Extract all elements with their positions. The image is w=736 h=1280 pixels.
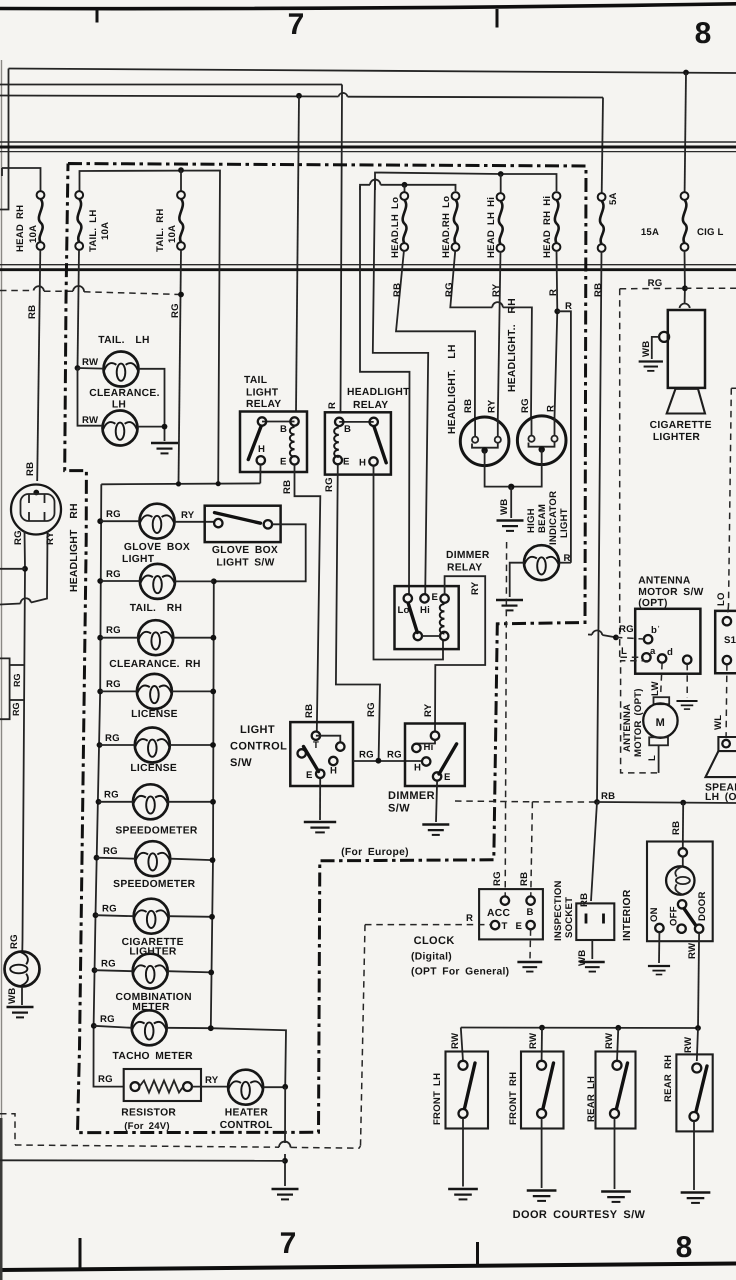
- door courtesy feed line: [461, 1027, 698, 1030]
- ground: indicator: [496, 600, 523, 610]
- node: dot on RG wire branch to page edge: [22, 566, 28, 572]
- dashed option box: top edge to CIG node: [620, 287, 685, 290]
- svg-text:RB: RB: [593, 283, 604, 297]
- node: dot tacho row right: [208, 1025, 214, 1031]
- tail relay switch arm: [248, 427, 261, 460]
- svg-text:7: 7: [288, 8, 305, 41]
- svg-text:R: R: [466, 913, 473, 924]
- wire: feed to fuse HEAD RH from page edge: [2, 168, 41, 191]
- svg-text:DOOR: DOOR: [697, 891, 708, 921]
- svg-text:OFF: OFF: [669, 906, 680, 926]
- inspection socket slots: [586, 914, 604, 924]
- front rh switch arm: [543, 1063, 554, 1109]
- bus band 1 (three stacked lines): [0, 141, 736, 143]
- wire: fuse TAIL LH output down to tail lamps: [78, 250, 80, 368]
- svg-text:RB: RB: [25, 462, 36, 476]
- fuse HEAD RH 10A: [37, 191, 45, 250]
- wire RB: HEAD LH Lo output to headlight LH low pin: [396, 250, 475, 419]
- svg-text:RG: RG: [98, 1074, 113, 1085]
- lamp: unnamed bottom-left lamp: [5, 952, 40, 987]
- wire: Hi rail riser down to dimmer relay Hi: [373, 178, 428, 595]
- svg-text:RY: RY: [181, 510, 195, 521]
- RB feed line lower right: [455, 800, 532, 803]
- svg-text:RB: RB: [601, 791, 615, 802]
- headlight RH lamp circle: [517, 416, 566, 465]
- lamp column right rail: [211, 581, 286, 1086]
- wire: lighter WB pin to ground: [652, 337, 659, 359]
- svg-text:INDICATOR: INDICATOR: [548, 491, 559, 545]
- svg-text:(For 24V): (For 24V): [124, 1121, 170, 1132]
- relay: TAIL LIGHT RELAY box: [240, 412, 307, 473]
- svg-text:LH: LH: [112, 400, 126, 411]
- wire: HEAD LH Hi fuse top: [500, 174, 502, 193]
- node: dot courtesy line at REAR RH: [695, 1025, 701, 1031]
- node: dot speedo1 row right: [210, 799, 216, 805]
- svg-text:R: R: [546, 405, 557, 412]
- wire: interior ON to ground: [658, 932, 660, 963]
- wire: dimmer switch E to ground: [436, 781, 437, 822]
- wire stub from edge box to RG wire (lower): [10, 699, 24, 701]
- ground: dimmer switch: [422, 825, 449, 835]
- light control upper right contact: [336, 742, 344, 750]
- front lh bottom pin: [459, 1109, 468, 1118]
- wire: line A left entry stub from page edge: [0, 69, 9, 210]
- dashed wire: ground-side pin to ground: [686, 664, 688, 698]
- svg-text:RG: RG: [101, 959, 116, 970]
- speaker cone: [706, 751, 736, 777]
- svg-text:RB: RB: [579, 893, 590, 907]
- svg-text:RB: RB: [519, 872, 530, 886]
- dashed wire: R feed to clock T: [365, 924, 491, 926]
- lamp LICENSE 2: [135, 728, 170, 763]
- wire: fuse HEAD RH output down to connector: [37, 250, 40, 481]
- clock pin ACC: [501, 896, 509, 904]
- relay: DIMMER RELAY box: [395, 586, 459, 649]
- dimmer relay bottom-right pin: [440, 632, 448, 640]
- glove switch arm: [215, 513, 261, 524]
- wire: line B corner down to headlight relay B: [341, 85, 343, 413]
- svg-text:T: T: [502, 921, 508, 932]
- wire: CLEARANCE LH right to ground: [138, 427, 165, 441]
- wire: glove lamp to switch: [175, 521, 215, 523]
- node: dot courtesy line at FRONT RH: [539, 1025, 545, 1031]
- svg-text:CONTROL: CONTROL: [220, 1120, 273, 1131]
- svg-text:RELAY: RELAY: [246, 399, 281, 410]
- wire: TAIL LH lamp right to ground riser: [139, 369, 165, 427]
- ground: bottom-left lamp: [7, 1007, 34, 1017]
- cigarette lighter connector bump: [680, 304, 690, 308]
- node: dot heater row right: [282, 1084, 288, 1090]
- wire: fuse TAIL RH output down to panel feed line: [179, 250, 182, 484]
- headlight relay pin H: [369, 457, 377, 465]
- wire: line C corner down to 5A fuse: [602, 98, 603, 194]
- wire: courtesy line down to FRONT LH: [461, 1028, 463, 1062]
- svg-text:RB: RB: [463, 399, 474, 413]
- interior pin DOOR: [695, 925, 703, 933]
- svg-text:FRONT RH: FRONT RH: [508, 1072, 519, 1125]
- wire: tail fuse top rail: [80, 171, 221, 484]
- bottom tick mark left: [79, 1238, 82, 1268]
- left page scan edge: [1, 60, 3, 1280]
- svg-text:LH (O: LH (O: [705, 792, 736, 803]
- dimmer relay bottom link: [422, 635, 440, 637]
- svg-text:LIGHT: LIGHT: [122, 554, 155, 565]
- headlamp fuse group: Lo rail with hop: [360, 185, 456, 191]
- svg-text:RW: RW: [82, 357, 99, 368]
- antenna switch pin b: [644, 635, 652, 643]
- svg-text:LO: LO: [716, 592, 727, 606]
- light control pin T: [312, 732, 320, 740]
- switch: DIMMER S/W box: [405, 724, 465, 787]
- node: dot glove row on left rail: [97, 518, 103, 524]
- bottom tick mark right: [476, 1242, 479, 1266]
- svg-text:TACHO METER: TACHO METER: [113, 1051, 194, 1062]
- svg-text:L: L: [621, 646, 627, 657]
- rear lh bottom pin: [610, 1109, 619, 1118]
- dashed wire: RB from corner to node: [532, 801, 597, 803]
- wire hop: line C hops over headlight relay feed: [339, 93, 348, 97]
- ground: rear rh: [681, 1193, 711, 1203]
- dimmer relay pin Lo: [404, 594, 412, 602]
- switch: FRONT LH door box: [446, 1052, 489, 1129]
- front lh switch arm: [465, 1063, 476, 1109]
- dark scan smudge bottom-left edge: [0, 1118, 3, 1280]
- svg-text:TAIL. RH: TAIL. RH: [130, 603, 183, 614]
- ground: headlights: [497, 521, 524, 531]
- lamp: interior dome light: [666, 866, 694, 894]
- fuse HEAD RH Lo: [452, 192, 460, 251]
- svg-text:HEADLIGHT RH: HEADLIGHT RH: [69, 503, 80, 592]
- svg-text:RB: RB: [304, 704, 315, 718]
- svg-text:RG: RG: [12, 674, 22, 688]
- interior top pin: [679, 848, 687, 856]
- switch: REAR LH door box: [596, 1052, 636, 1129]
- svg-text:SPEEDOMETER: SPEEDOMETER: [113, 879, 196, 890]
- headlight relay throw contact: [370, 418, 378, 426]
- svg-text:ON: ON: [649, 907, 660, 922]
- svg-text:7: 7: [280, 1227, 297, 1260]
- svg-text:HEAD.RH Lo: HEAD.RH Lo: [441, 196, 452, 258]
- svg-text:LIGHT: LIGHT: [246, 388, 279, 399]
- fuse HEAD LH Hi: [497, 193, 505, 252]
- fuse HEAD LH Lo: [400, 192, 408, 251]
- svg-text:RW: RW: [450, 1032, 461, 1049]
- svg-text:CLEARANCE. RH: CLEARANCE. RH: [109, 659, 200, 670]
- ground: light control: [304, 822, 336, 832]
- svg-text:RW: RW: [528, 1032, 539, 1049]
- wire: rail to LICENSE1 lamp: [100, 690, 137, 692]
- ground: front lh: [448, 1189, 478, 1199]
- svg-text:RG: RG: [444, 282, 455, 297]
- node: dot where dashed RB meets TAIL RH output: [178, 292, 184, 298]
- stereo box (partial at page edge): [715, 611, 736, 673]
- wire: 5A RB riser continues to inspection socket: [591, 802, 597, 901]
- lamp CLEARANCE LH: [103, 411, 138, 446]
- clock pin T: [491, 921, 499, 929]
- svg-text:GLOVE BOX: GLOVE BOX: [212, 545, 278, 556]
- svg-text:HEAD LH Hi: HEAD LH Hi: [486, 197, 497, 258]
- wire hop: dashed over TAIL LH output: [73, 286, 84, 292]
- svg-text:d: d: [667, 647, 673, 658]
- node: dot on ground bus line: [282, 1158, 288, 1164]
- node: dot license1 row right: [210, 689, 216, 695]
- svg-text:WB: WB: [499, 499, 510, 515]
- switch: REAR RH door box: [676, 1054, 712, 1131]
- wire: Lo rail riser down to dimmer relay Lo: [360, 186, 410, 595]
- wire: headlight LH base to common: [485, 451, 508, 487]
- wire: rail to TAIL RH lamp: [100, 580, 140, 582]
- wire: dimmer relay E up and over to dimmer switch Hi: [435, 576, 485, 731]
- lamp TAIL LH: [104, 352, 139, 387]
- svg-text:(OPT): (OPT): [638, 598, 668, 609]
- light control switch arm: [304, 747, 319, 772]
- svg-text:5A: 5A: [608, 192, 619, 205]
- svg-text:REAR RH: REAR RH: [663, 1055, 674, 1102]
- node: junction dot on line C at tail relay feed: [296, 93, 302, 99]
- wire: dot to TAIL LH lamp: [78, 367, 104, 370]
- wire: motor bottom lead: [658, 745, 660, 773]
- dimmer relay switch arm: [408, 604, 417, 633]
- node: dot license2 row left: [97, 742, 103, 748]
- svg-text:bʾ: bʾ: [651, 625, 660, 636]
- light control left contact: [298, 749, 306, 757]
- dashed wire: RG branch to right page edge: [685, 287, 736, 289]
- dashed corner: RB branch down to clock B: [531, 802, 533, 896]
- antenna motor M circle: [643, 703, 677, 737]
- svg-text:RW: RW: [683, 1036, 694, 1053]
- lamp CLEARANCE RH: [138, 620, 173, 655]
- antenna switch pin ground-side: [683, 656, 691, 664]
- bus line B (feed to headlight relay): [0, 84, 342, 86]
- switch: FRONT RH door box: [521, 1052, 564, 1129]
- switch: GLOVE BOX LIGHT S/W box: [205, 506, 281, 542]
- svg-text:RG: RG: [102, 904, 117, 915]
- svg-text:H: H: [414, 763, 421, 774]
- node: dot tacho row left: [91, 1023, 97, 1029]
- svg-text:DIMMER: DIMMER: [388, 790, 435, 802]
- dashed wire: option drop from R feed: [361, 925, 366, 1146]
- node: dot TAIL RH output joins feed line: [176, 481, 181, 486]
- wire: heater lamp to ground drop: [264, 1086, 286, 1088]
- svg-text:RB: RB: [671, 821, 682, 835]
- wire stub from edge box to RG wire (upper): [10, 664, 24, 666]
- headlight LH filaments: [475, 419, 498, 437]
- wire: rail to LICENSE2 lamp: [100, 744, 135, 746]
- fuse HEAD RH Hi: [553, 192, 561, 251]
- top tick mark left: [96, 9, 99, 23]
- wire RG: HEAD RH Lo output to headlight RH low pin with hop: [450, 250, 532, 418]
- inspection socket box: [576, 903, 614, 940]
- node: headlight RH base dot: [539, 446, 545, 452]
- node: dot comb row right: [208, 970, 214, 976]
- fuse TAIL LH 10A: [75, 191, 83, 250]
- svg-text:10A: 10A: [28, 225, 39, 243]
- svg-text:TAIL. LH: TAIL. LH: [88, 210, 99, 252]
- headlight LH lamp circle: [460, 417, 509, 466]
- svg-text:H: H: [330, 766, 337, 777]
- speaker box: [718, 737, 736, 751]
- headlamp fuse group: Hi rail: [375, 173, 557, 192]
- node: dot CIG output at dashed branch: [682, 285, 688, 291]
- lamp CIGARETTE LIGHTER (panel): [134, 899, 169, 934]
- dimmer relay coil: [440, 604, 445, 634]
- lamp HEATER CONTROL: [228, 1070, 263, 1105]
- svg-text:RG: RG: [9, 934, 20, 949]
- svg-text:SOCKET: SOCKET: [564, 897, 575, 938]
- svg-text:R: R: [548, 289, 559, 296]
- svg-text:WB: WB: [577, 950, 588, 966]
- lamp GLOVE BOX LIGHT: [140, 504, 175, 539]
- antenna motor top terminal: [654, 697, 670, 704]
- lamp TACHO METER: [132, 1010, 167, 1045]
- headlight RH filaments: [532, 418, 555, 436]
- svg-text:BEAM: BEAM: [537, 504, 548, 533]
- lamp SPEEDOMETER 2: [135, 841, 170, 876]
- wire RG: connector to bottom lamp: [22, 531, 25, 951]
- svg-text:WB: WB: [641, 341, 652, 357]
- ground: cigarette lighter: [639, 362, 663, 371]
- wire hop: Lo rail hops over Hi riser: [370, 180, 381, 185]
- svg-text:RW: RW: [82, 415, 99, 426]
- svg-text:RG: RG: [366, 702, 377, 717]
- svg-text:HEADLIGHT.. RH: HEADLIGHT.. RH: [507, 298, 518, 392]
- bus line A (top feed to CIG fuse): [9, 69, 736, 74]
- svg-text:B: B: [527, 907, 534, 918]
- svg-text:RELAY: RELAY: [447, 563, 482, 574]
- svg-text:RG: RG: [104, 790, 119, 801]
- svg-text:RB: RB: [27, 305, 38, 319]
- light control pin E: [316, 770, 324, 778]
- svg-text:REAR LH: REAR LH: [586, 1076, 597, 1122]
- node: dot license1 row left: [97, 689, 103, 695]
- cigarette lighter WB pin: [659, 332, 669, 342]
- bus line C (feed to tail relay and 5A fuse): [0, 96, 603, 98]
- wire: headlight relay E down and over to RG node: [336, 465, 380, 761]
- thin dashed option boundary across page with hop: [15, 1145, 361, 1148]
- dashed option box: right radio boundary: [729, 388, 736, 606]
- svg-text:R: R: [327, 402, 338, 409]
- svg-text:M: M: [656, 717, 666, 729]
- interior switch common pin: [678, 900, 686, 908]
- lamp column left rail: [94, 484, 124, 1086]
- svg-text:R: R: [565, 301, 572, 312]
- wire: LICENSE2 lamp to right rail: [170, 744, 213, 746]
- node: dot at clearance ground junction: [162, 424, 168, 430]
- svg-text:RY: RY: [205, 1075, 219, 1086]
- dashed stub: pin a to option boundary: [621, 656, 643, 658]
- svg-text:GLOVE BOX: GLOVE BOX: [124, 542, 190, 553]
- clock pin E: [526, 921, 534, 929]
- svg-text:E: E: [280, 457, 287, 468]
- antenna motor bottom terminal: [649, 737, 668, 745]
- svg-text:RY: RY: [45, 531, 56, 545]
- fuse TAIL RH 10A: [177, 191, 185, 250]
- node: dot clearance rh row right: [211, 635, 217, 641]
- dashed option box around antenna motor: [621, 661, 659, 773]
- svg-text:HEADLIGHT. LH: HEADLIGHT. LH: [447, 344, 458, 434]
- node: dot TAIL RH fuse top on rail: [178, 167, 184, 173]
- svg-text:HEAD.LH Lo: HEAD.LH Lo: [390, 197, 401, 258]
- svg-text:RW: RW: [604, 1032, 615, 1049]
- wire: CLEARANCE RH lamp to right rail: [173, 637, 213, 639]
- node: dot clearance rh row left: [97, 635, 103, 641]
- svg-text:MOTOR (OPT): MOTOR (OPT): [633, 688, 644, 757]
- interior light box: [647, 842, 713, 942]
- wire: courtesy line down to FRONT RH: [541, 1028, 543, 1061]
- thin dashed option boundary bottom left: [0, 1114, 15, 1145]
- wire: glove switch output to right rail: [214, 524, 306, 581]
- wire hop: dashed over HEAD RH output: [34, 286, 45, 291]
- svg-text:RY: RY: [487, 399, 498, 413]
- wire: rail to SPEEDO1 lamp: [99, 801, 134, 803]
- dash-dot harness boundary box A: [65, 164, 586, 1133]
- wire: front rh to ground: [541, 1118, 543, 1188]
- ground: inspection socket: [580, 962, 605, 972]
- svg-text:Hi: Hi: [420, 605, 430, 616]
- wire: light control H to dimmer switch H: [353, 760, 422, 762]
- wire: SPEEDO1 lamp to right rail: [168, 801, 213, 803]
- wire: tail relay E down to light control T: [295, 465, 321, 732]
- dimmer relay bottom-left pin: [414, 632, 422, 640]
- interior switch arm: [684, 909, 696, 926]
- top tick mark right: [496, 9, 499, 28]
- wire: rail to CIG lamp: [96, 915, 134, 916]
- wire hop: RY over RG wire: [21, 598, 32, 603]
- svg-text:WB: WB: [7, 988, 18, 1004]
- ground: lamp column: [272, 1189, 299, 1199]
- interior pin OFF: [677, 925, 685, 933]
- dashed wire: stereo to speaker: [725, 664, 728, 736]
- wire: courtesy line down to REAR RH: [697, 1028, 698, 1061]
- svg-text:10A: 10A: [167, 225, 178, 243]
- svg-text:RG: RG: [100, 1014, 115, 1025]
- tail relay pin E: [290, 456, 298, 464]
- ground: antenna switch: [676, 701, 697, 709]
- svg-text:RG: RG: [105, 733, 120, 744]
- svg-text:RG: RG: [106, 625, 121, 636]
- svg-text:LW: LW: [650, 680, 661, 696]
- svg-text:LIGHT S/W: LIGHT S/W: [216, 558, 274, 569]
- connector prong detail: [21, 494, 55, 521]
- glove switch left contact: [214, 519, 222, 527]
- svg-text:E: E: [516, 921, 523, 932]
- dashed wire: clock ACC feed from above: [505, 542, 506, 896]
- wire: COMB lamp to right rail: [168, 971, 212, 972]
- tail relay internal link B to throw contact: [262, 421, 295, 423]
- dimmer switch pin E: [433, 772, 441, 780]
- node: dot tail rail joins feed line: [216, 481, 221, 486]
- svg-text:FRONT LH: FRONT LH: [432, 1073, 443, 1125]
- page top border frame: [0, 4, 736, 9]
- dashed option box: top right vertical boundary: [619, 289, 621, 661]
- svg-text:S/W: S/W: [230, 757, 252, 769]
- node: dot right rail top: [211, 578, 217, 584]
- page bottom border frame: [0, 1264, 736, 1271]
- wire R: HEAD RH Hi output to headlight RH hi pin: [555, 250, 558, 418]
- svg-text:HEAD RH Hi: HEAD RH Hi: [542, 196, 553, 258]
- resistor zigzag element: [139, 1081, 183, 1093]
- svg-text:HEAD RH: HEAD RH: [15, 205, 26, 252]
- svg-text:RELAY: RELAY: [353, 400, 388, 411]
- svg-text:CIGARETTE: CIGARETTE: [650, 420, 712, 431]
- speaker pin: [722, 740, 730, 748]
- svg-text:RG: RG: [619, 624, 634, 635]
- svg-text:LIGHT: LIGHT: [559, 508, 570, 538]
- dimmer switch pin H: [422, 757, 430, 765]
- svg-text:S/W: S/W: [388, 803, 410, 815]
- resistor right terminal: [183, 1082, 192, 1091]
- switch: ANTENNA MOTOR S/W box: [635, 609, 700, 674]
